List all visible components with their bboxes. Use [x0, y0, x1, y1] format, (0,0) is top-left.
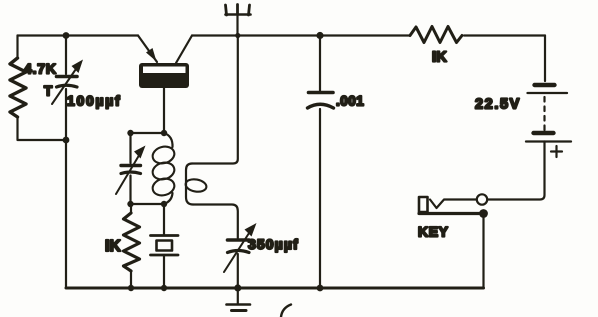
wire top rail middle segment	[192, 34, 409, 36]
ground	[227, 288, 251, 311]
svg-text:22.5V: 22.5V	[475, 97, 521, 113]
key switch knob	[419, 197, 428, 212]
inductor L1 primary winding	[151, 133, 176, 204]
capacitor C1 100uuf trimmer	[52, 60, 83, 105]
node junction rail 350 (238,288)	[234, 284, 241, 291]
node junction tank bottom right (164,204)	[161, 201, 167, 207]
wire tank bottom bar	[131, 203, 165, 205]
wire secondary bottom lead	[193, 205, 238, 239]
resistor R1 4.7K	[10, 58, 26, 117]
svg-text:100µµf: 100µµf	[67, 93, 121, 109]
node junction B (66,35)	[63, 32, 70, 39]
svg-text:KEY: KEY	[418, 224, 449, 240]
key switch upper contact lever	[430, 200, 477, 209]
node junction antenna (238,35)	[235, 33, 240, 38]
capacitor C3 .001	[308, 36, 334, 289]
transistor Q1 collector lead	[176, 36, 192, 64]
wire top rail right segment	[464, 34, 545, 36]
wire 4.7K bottom lead	[18, 117, 67, 140]
inductor L2 secondary winding	[185, 164, 208, 205]
wire bottom rail	[66, 287, 484, 290]
wire battery to key	[488, 142, 545, 200]
transistor Q1 body	[139, 63, 189, 88]
transistor Q1 emitter lead with arrow	[138, 36, 157, 63]
capacitor C2 tank variable	[116, 133, 146, 204]
node junction rail .001 (320,288)	[317, 285, 324, 292]
wire main left vertical upper	[65, 36, 67, 75]
caption mark	[281, 305, 291, 317]
wire main left vertical lower	[65, 89, 67, 288]
wire base lead down	[163, 88, 165, 133]
key switch contact circle	[477, 194, 487, 204]
wire right vertical to battery	[544, 36, 546, 82]
node junction A (66,140)	[63, 137, 70, 144]
resistor R2 1K	[124, 204, 140, 288]
wire tank top bar	[131, 132, 165, 134]
key switch lower bar	[419, 212, 484, 215]
battery B1 22.5V	[526, 85, 571, 157]
resistor R3 1K horizontal	[410, 27, 462, 43]
capacitor C4 350uuf variable	[224, 223, 257, 272]
antenna	[226, 5, 251, 36]
wire 350uuf bottom lead	[237, 254, 239, 288]
svg-text:T: T	[44, 84, 53, 99]
wire key down to bottom rail	[482, 214, 484, 289]
node junction R2 bottom (131,288)	[128, 285, 134, 291]
node junction crystal bottom (164,288)	[161, 285, 167, 291]
node junction .001 top (320,35)	[316, 32, 323, 39]
svg-text:IK: IK	[105, 238, 122, 255]
wire antenna stem down to secondary	[192, 36, 238, 164]
wire left branch down to 4.7K	[16, 36, 18, 59]
svg-text:4.7K: 4.7K	[24, 61, 57, 77]
svg-text:IK: IK	[432, 50, 447, 66]
node junction tank bottom left (130,204)	[127, 201, 133, 207]
node junction tank top left (130,133)	[127, 130, 133, 136]
svg-text:.001: .001	[336, 94, 364, 109]
wire top rail left segment	[18, 34, 139, 36]
node junction tank top right (164,133)	[161, 130, 167, 136]
node key output dot	[479, 209, 488, 218]
svg-text:350µµf: 350µµf	[248, 236, 299, 252]
crystal Y1	[151, 204, 179, 288]
